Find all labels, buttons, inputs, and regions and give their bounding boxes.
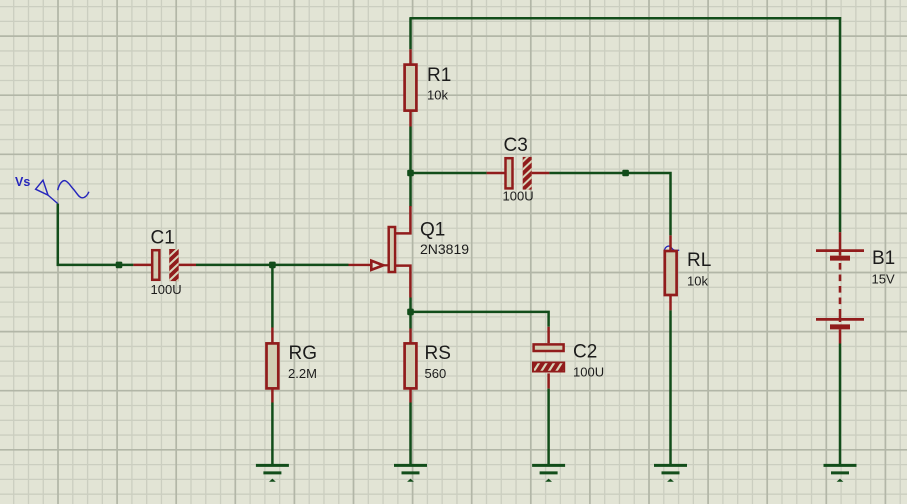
transistor Q1 gate pin (349, 264, 371, 266)
node drain junction (407, 170, 414, 177)
capacitor C3 right plate hatched (521, 151, 535, 196)
capacitor C3 right pin (532, 172, 550, 175)
resistor RG top pin (271, 328, 274, 344)
svg-text:RG: RG (289, 343, 318, 364)
wire R1 bottom to drain node (409, 127, 412, 207)
wire drain node to C3 (411, 172, 487, 175)
ground under C2 (532, 465, 565, 481)
node RG junction (269, 262, 276, 269)
capacitor C2 bottom plate hatched (532, 362, 570, 373)
transistor Q1 gate arrow tip nub (383, 264, 387, 266)
node on output wire (622, 170, 629, 177)
svg-text:2N3819: 2N3819 (420, 241, 469, 257)
battery B1 top pin (839, 232, 842, 255)
svg-text:RS: RS (425, 343, 451, 364)
signal source sine squiggle (58, 181, 89, 198)
wire source down to node (409, 298, 412, 314)
capacitor C1 left plate (152, 250, 159, 280)
svg-text:C2: C2 (573, 342, 597, 363)
capacitor C1 right plate hatched (167, 246, 181, 291)
svg-text:Vs: Vs (15, 175, 30, 189)
resistor R1 body (405, 65, 417, 111)
wire top rail from R1 to B1 (409, 17, 841, 20)
svg-text:100U: 100U (151, 282, 182, 297)
svg-text:15V: 15V (872, 272, 895, 287)
wire RG to ground (271, 403, 274, 466)
wire Vs to C1 (57, 264, 134, 267)
ground under RG (256, 465, 289, 481)
wire C3 to RL corner (549, 173, 670, 235)
svg-text:Q1: Q1 (420, 220, 445, 241)
transistor Q1 body bar (389, 227, 395, 272)
svg-text:100U: 100U (573, 365, 604, 380)
probe mark at RL top (664, 246, 679, 251)
resistor RG body (267, 343, 279, 388)
resistor R1 top pin (409, 49, 412, 64)
capacitor C2 bottom pin (547, 373, 550, 388)
transistor Q1 drain pin (394, 206, 410, 233)
svg-text:10k: 10k (687, 274, 708, 289)
capacitor C2 top pin (547, 327, 550, 343)
battery B1 cell1 short plate (830, 256, 850, 261)
svg-text:2.2M: 2.2M (288, 366, 317, 381)
wire C2 to ground (547, 389, 550, 466)
svg-text:C3: C3 (504, 135, 528, 156)
battery B1 cell2 lead (839, 309, 842, 322)
svg-text:560: 560 (425, 366, 447, 381)
wire source node to C2 (411, 312, 549, 327)
wire B1 to ground (839, 344, 842, 466)
battery B1 cell2 short plate (830, 324, 850, 329)
capacitor C1 right pin (179, 264, 196, 267)
wire RG top (271, 265, 274, 328)
ground under RS (394, 465, 427, 481)
wire B1 top drop (839, 17, 842, 232)
capacitor C3 left plate (506, 158, 513, 188)
wire RS to ground (409, 403, 412, 466)
resistor RL body (665, 251, 677, 295)
resistor RG bottom pin (271, 389, 274, 403)
svg-text:B1: B1 (872, 248, 895, 269)
battery B1 dashed link (839, 263, 842, 309)
battery B1 cell1 long plate (816, 249, 864, 252)
signal source probe tip line (48, 195, 58, 204)
ground under B1 (824, 465, 857, 481)
transistor Q1 gate arrow (371, 261, 383, 270)
resistor RS bottom pin (409, 389, 412, 403)
svg-text:R1: R1 (427, 65, 451, 86)
resistor R1 bottom pin (409, 111, 412, 126)
node source junction (407, 309, 414, 316)
resistor RL top pin (669, 235, 672, 250)
svg-text:100U: 100U (503, 188, 534, 203)
battery B1 bottom pin (839, 329, 842, 343)
transistor Q1 source pin (394, 266, 410, 298)
svg-text:10k: 10k (427, 88, 448, 103)
capacitor C2 top plate (534, 344, 564, 351)
resistor RS top pin (409, 329, 412, 344)
svg-text:C1: C1 (151, 227, 175, 248)
wire C1 to gate (196, 264, 349, 267)
capacitor C1 left pin (133, 264, 152, 267)
node Vs wire junction (116, 262, 123, 269)
resistor RL bottom pin (669, 296, 672, 311)
signal source probe triangle (36, 180, 48, 195)
wire RL to ground (669, 310, 672, 465)
wire RS top (409, 312, 412, 329)
capacitor C3 left pin (487, 172, 505, 175)
wire R1 top (409, 18, 412, 49)
wire Vs vertical (57, 204, 60, 266)
ground under RL (654, 465, 687, 481)
resistor RS body (405, 343, 417, 388)
battery B1 cell2 long plate (816, 318, 864, 321)
svg-text:RL: RL (687, 250, 711, 271)
